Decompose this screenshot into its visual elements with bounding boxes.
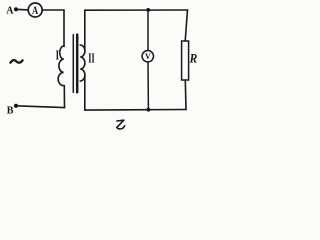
label Yi (second) [117,120,125,129]
wire secondary top lead [84,10,86,51]
ammeter A [28,3,42,17]
wire voltmeter top lead [147,10,149,51]
svg-text:A: A [32,5,39,17]
node B [14,104,18,108]
wire secondary bottom lead [84,75,86,110]
primary coil I [58,46,64,86]
wire right branch top [185,10,187,41]
svg-text:V: V [145,52,151,61]
transformer core bar right [76,35,79,93]
voltmeter V [142,51,153,62]
wire primary bottom lead [63,86,65,108]
svg-text:A: A [6,6,14,17]
junction top [146,8,150,12]
junction bottom [147,108,151,112]
wire primary top lead [63,10,65,47]
svg-text:I: I [56,47,59,62]
wire voltmeter bottom lead [147,62,149,110]
transformer core bar left [72,35,74,93]
wire bottom left [16,106,65,108]
AC source tilde [10,60,22,63]
wire ammeter to primary top [42,9,64,11]
wire bottom rail right [85,109,186,112]
svg-text:B: B [7,106,14,117]
resistor R [182,41,189,80]
secondary coil II [80,45,85,81]
svg-text:R: R [189,52,198,66]
svg-text:II: II [88,51,94,66]
wire right branch bottom [184,80,187,110]
node A [14,7,18,11]
wire A to ammeter [18,8,28,11]
wire top rail right [85,9,188,11]
